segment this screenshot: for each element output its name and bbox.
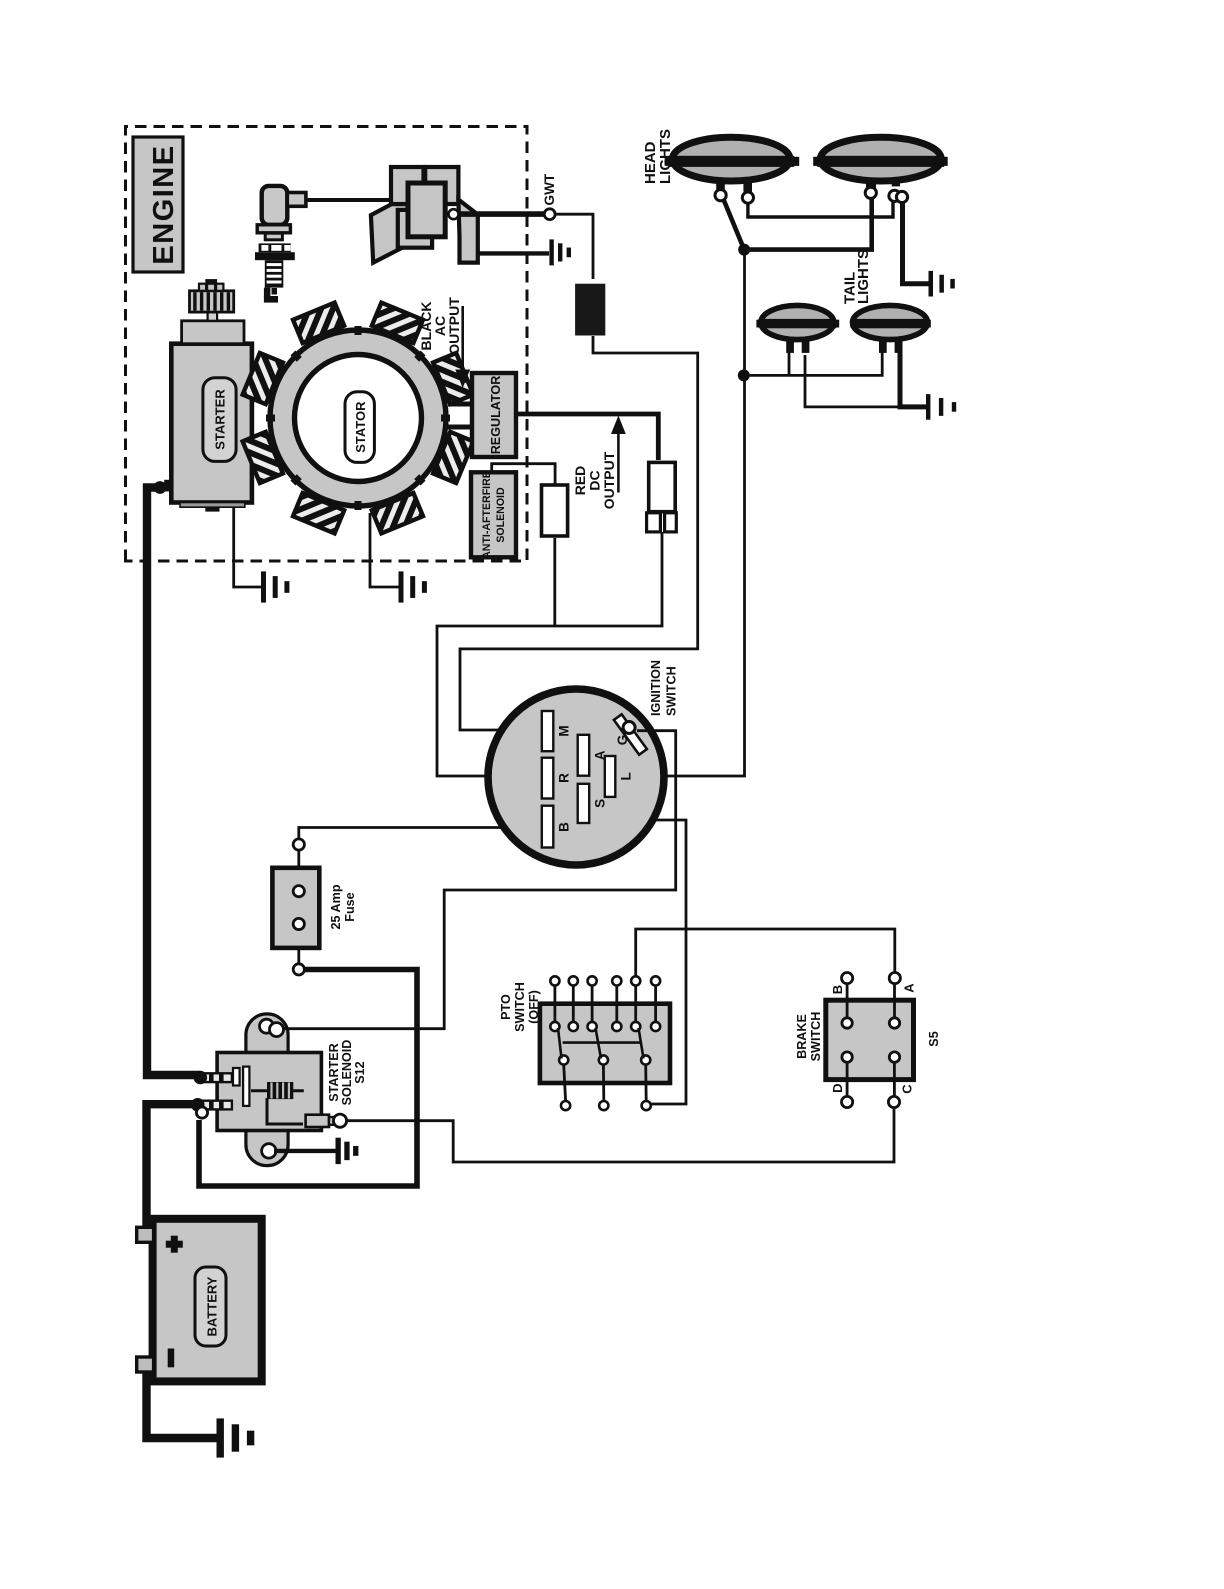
- starter pinion gear: [190, 291, 234, 312]
- solenoid terminal stud (battery side): [191, 1098, 232, 1112]
- ground (ignition coil): [549, 239, 553, 265]
- stator pole ticks: [266, 326, 450, 510]
- starter shaft end bar: [205, 279, 217, 284]
- svg-text:GWT: GWT: [542, 173, 557, 205]
- wire lights feed to headlight 2: [744, 198, 872, 250]
- ENGINE label box: [133, 137, 183, 272]
- fuse terminal circle (outer right, to ignition B): [293, 839, 304, 850]
- svg-text:IGNITION: IGNITION: [649, 660, 663, 716]
- starter cable terminal tab: [164, 480, 172, 492]
- STARTER SOLENOID S12 label: [327, 1040, 367, 1106]
- wire solenoid mount to ground: [274, 1149, 336, 1153]
- wire starter to ground: [234, 508, 262, 587]
- svg-text:SWITCH: SWITCH: [809, 1012, 823, 1062]
- tail light 2: [850, 305, 931, 353]
- brake switch inner terminals: [842, 1018, 900, 1063]
- wire tail light to ground (thick): [900, 334, 926, 407]
- spark plug wire: [306, 198, 393, 202]
- brake switch S5 body: [826, 1000, 914, 1079]
- 25 Amp fuse body: [272, 868, 319, 948]
- ground (headlights): [929, 271, 934, 297]
- TAIL LIGHTS label: [842, 249, 873, 304]
- battery: [153, 1219, 262, 1382]
- PTO switch inner terminals left: [559, 1055, 650, 1064]
- PTO switch blades: [558, 1028, 644, 1059]
- fuse terminal circle (inner left): [293, 918, 304, 929]
- starter solenoid S12 mounting plate: [246, 1014, 288, 1166]
- ignition terminal A: [578, 735, 590, 776]
- wire PTO switch to brake switch A: [636, 929, 895, 976]
- svg-text:BRAKE: BRAKE: [795, 1014, 809, 1059]
- PTO switch body: [540, 1004, 670, 1083]
- stator ring: [270, 330, 446, 506]
- BLACK AC OUTPUT label and arrow: [418, 297, 470, 388]
- svg-text:ENGINE: ENGINE: [148, 144, 180, 264]
- IGNITION SWITCH label: [649, 660, 679, 716]
- black inline connector box: [575, 284, 605, 336]
- svg-text:R: R: [557, 773, 572, 783]
- svg-text:SWITCH: SWITCH: [513, 982, 527, 1032]
- ignition coil module: [371, 167, 478, 263]
- starter terminal tab: [205, 507, 219, 512]
- engine dashed boundary box: [126, 127, 528, 562]
- svg-text:25 Amp: 25 Amp: [329, 884, 343, 929]
- PTO switch outer terminals right: [550, 976, 660, 985]
- wire resistor to R-circuit junction: [553, 538, 556, 626]
- svg-text:S12: S12: [353, 1061, 367, 1083]
- svg-text:A: A: [902, 983, 917, 993]
- wire ignition S to PTO switch: [588, 820, 686, 1104]
- PTO switch terminal stubs right: [555, 986, 656, 1023]
- solenoid plunger linkage wire: [267, 1098, 303, 1124]
- wire ignition module GWT to ignition M (via connector): [555, 214, 593, 279]
- svg-text:STARTER: STARTER: [327, 1043, 341, 1102]
- svg-text:BATTERY: BATTERY: [205, 1276, 220, 1336]
- ignition terminal B: [542, 806, 554, 848]
- svg-text:S: S: [593, 799, 608, 808]
- PTO switch terminal stubs left: [564, 1065, 647, 1102]
- RED DC OUTPUT label and arrow: [572, 416, 626, 510]
- 25 Amp Fuse label: [329, 884, 357, 929]
- svg-text:S5: S5: [927, 1031, 941, 1046]
- starter brush strip: [180, 503, 245, 508]
- ground (stator): [399, 571, 404, 602]
- solenoid fuse-feed terminal circle: [196, 1107, 207, 1118]
- wire fuse output to solenoid stud (thick): [199, 970, 417, 1187]
- wire battery negative to ground: [147, 1372, 217, 1438]
- battery positive terminal: [137, 1227, 154, 1242]
- wire regulator DC output (thick): [516, 414, 658, 460]
- coil terminal circle: [449, 209, 459, 219]
- wire lights feed junction to headlight 1 (diagonal): [723, 197, 745, 250]
- PTO switch link bar: [563, 1041, 642, 1044]
- svg-text:ANTI-AFTERFIRE: ANTI-AFTERFIRE: [481, 471, 493, 559]
- ignition terminal L: [605, 756, 616, 797]
- tail light 1: [756, 305, 839, 353]
- svg-text:LIGHTS: LIGHTS: [855, 249, 872, 304]
- stator to regulator connection bars: [448, 425, 472, 430]
- spark plug: [255, 186, 306, 303]
- svg-text:SOLENOID: SOLENOID: [495, 487, 507, 543]
- HEAD LIGHTS label: [642, 129, 674, 184]
- svg-text:B: B: [557, 822, 572, 832]
- svg-text:A: A: [593, 750, 608, 760]
- PTO switch inner terminals right: [550, 1022, 660, 1031]
- PTO switch outer terminals left: [561, 1101, 651, 1110]
- svg-text:B: B: [830, 985, 845, 994]
- svg-text:SWITCH: SWITCH: [665, 666, 679, 716]
- wire starter cable (solenoid to starter): [147, 488, 200, 1076]
- starter shaft: [208, 312, 218, 321]
- starter nose housing: [182, 321, 244, 344]
- wire tail light feed: [744, 351, 882, 375]
- wire ignition G to solenoid coil tab: [284, 731, 676, 1029]
- svg-text:STARTER: STARTER: [213, 389, 228, 450]
- wire stator to ground: [370, 513, 399, 587]
- wire headlight to ground (thick): [903, 203, 930, 284]
- solenoid terminal stud (starter side): [194, 1071, 232, 1085]
- svg-text:OUTPUT: OUTPUT: [601, 451, 617, 509]
- junction dot tail light feed: [738, 369, 750, 381]
- stator pole shoes (hatched): [243, 303, 474, 534]
- ignition key symbol: [614, 714, 647, 754]
- coil ground lead: [477, 251, 549, 255]
- ignition terminal letters: [557, 725, 634, 832]
- starter gear cap: [199, 284, 223, 291]
- wire solenoid plunger output to brake switch C: [346, 1108, 894, 1162]
- svg-text:SOLENOID: SOLENOID: [340, 1040, 354, 1106]
- wire battery positive cable to starter solenoid stud: [147, 1104, 195, 1227]
- coil lead to GWT terminal (thick): [458, 211, 543, 217]
- BRAKE SWITCH label: [795, 1012, 823, 1062]
- ground (battery): [217, 1418, 224, 1457]
- svg-text:STATOR: STATOR: [353, 401, 368, 453]
- ignition terminal S: [578, 784, 590, 823]
- solenoid contact bar B: [243, 1067, 249, 1106]
- junction dot headlight feed: [738, 244, 750, 256]
- wire anti-afterfire solenoid to resistor: [492, 464, 555, 485]
- wire tail light ground link: [805, 355, 899, 407]
- regulator: [472, 373, 516, 457]
- fuse wire stubs and terminals: [297, 847, 300, 886]
- ground (solenoid): [336, 1138, 341, 1164]
- solenoid coil winding: [267, 1082, 293, 1099]
- svg-text:G: G: [615, 735, 630, 746]
- svg-text:PTO: PTO: [499, 994, 513, 1020]
- anti-afterfire solenoid: [471, 472, 516, 557]
- svg-text:REGULATOR: REGULATOR: [489, 376, 503, 455]
- svg-text:M: M: [557, 725, 572, 736]
- starter solenoid S12 body: [217, 1053, 321, 1131]
- headlight 1: [665, 137, 800, 203]
- starter label plate: [203, 378, 236, 462]
- GWT terminal circle: [544, 209, 555, 220]
- wire regulator R-circuit to ignition R: [437, 532, 662, 776]
- wire ignition L to lights: [617, 252, 745, 776]
- resistor (white box): [542, 485, 568, 536]
- brake switch terminal C: [888, 1096, 899, 1107]
- starter motor body: [171, 344, 252, 503]
- DC output connector plug: [647, 462, 677, 532]
- svg-text:C: C: [900, 1084, 915, 1094]
- solenoid coil core line: [251, 1089, 304, 1092]
- ground (tail lights): [926, 394, 930, 420]
- svg-text:Fuse: Fuse: [343, 892, 357, 921]
- wire fuse to ignition switch terminal B: [299, 828, 534, 840]
- svg-text:(OFF): (OFF): [527, 990, 541, 1024]
- brake switch terminal letters: [830, 983, 917, 1094]
- wire headlight ground link: [748, 202, 893, 218]
- solenoid plunger: [306, 1114, 347, 1127]
- svg-text:OUTPUT: OUTPUT: [446, 297, 462, 355]
- solenoid mount tab terminal circles: [260, 1019, 274, 1033]
- ground (starter): [261, 571, 266, 602]
- ignition terminal M: [542, 711, 554, 751]
- svg-text:L: L: [619, 772, 634, 780]
- ignition B wire end circle: [534, 823, 543, 832]
- svg-text:D: D: [830, 1084, 845, 1093]
- brake switch terminal D: [842, 1096, 853, 1107]
- battery negative terminal: [137, 1357, 154, 1372]
- brake switch terminal stubs: [847, 984, 894, 1097]
- fuse terminal circle (inner right): [293, 886, 304, 897]
- STATOR label plate: [345, 392, 374, 463]
- PTO SWITCH (OFF) label: [499, 982, 541, 1032]
- brake switch terminal A: [889, 972, 900, 983]
- headlight 2: [813, 137, 948, 202]
- ignition terminal R: [542, 758, 554, 799]
- solenoid mount bottom circle: [262, 1144, 276, 1158]
- brake switch terminal B: [842, 972, 853, 983]
- ignition switch body circle: [488, 689, 664, 865]
- solenoid contact bar A: [233, 1068, 240, 1086]
- fuse terminal circle (outer left, output): [293, 964, 304, 975]
